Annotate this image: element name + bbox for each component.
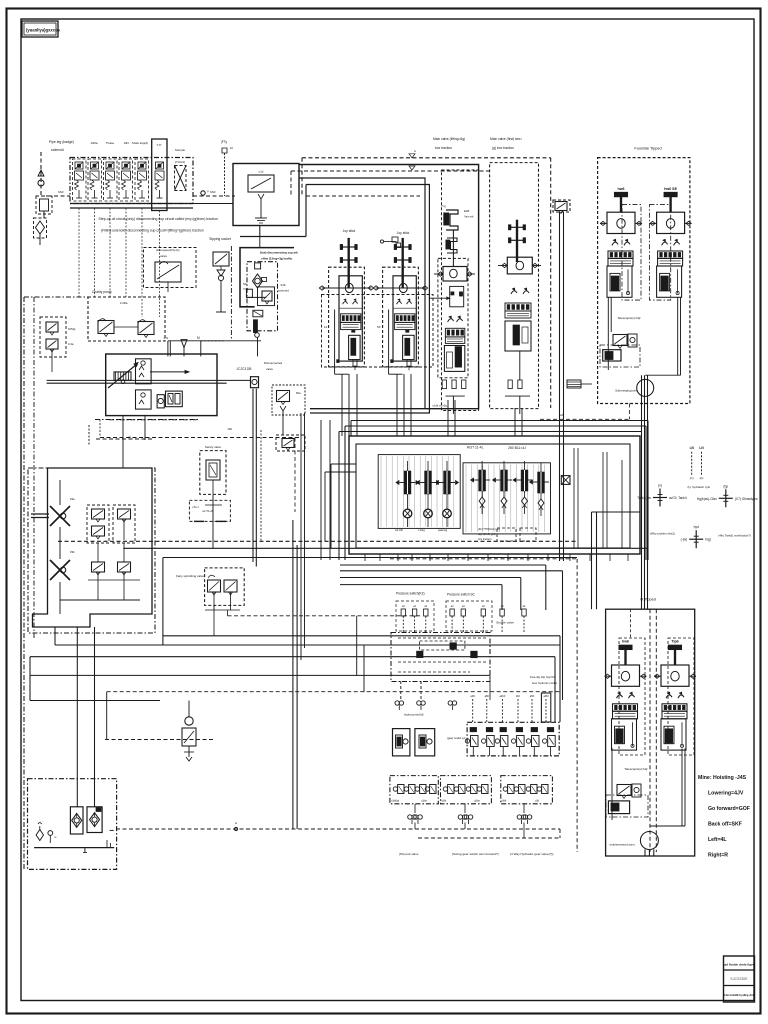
svg-text:2.0Ra: 2.0Ra	[120, 301, 128, 305]
svg-text:dgb (kbvfl) g(d): dgb (kbvfl) g(d)	[478, 532, 496, 536]
bus turn-downs mid	[554, 657, 556, 722]
svg-text:60a: 60a	[296, 391, 301, 395]
6t inner dashed a	[619, 638, 645, 755]
svg-text:Shde ksp(d): Shde ksp(d)	[132, 141, 148, 145]
svg-text:NG: NG	[243, 282, 247, 286]
svg-text:(yuanliya)gxxcos: (yuanliya)gxxcos	[26, 28, 61, 33]
comb risers assembly 4	[514, 408, 516, 436]
lifting valve pilot sub-box	[450, 286, 464, 306]
svg-text:5X: 5X	[377, 325, 381, 329]
svg-text:Charity pump: Charity pump	[92, 290, 112, 294]
manifold right group frame	[463, 463, 551, 534]
svg-text:Tank(J)av: Tank(J)av	[637, 496, 651, 500]
top dashed bus to tipped box	[302, 157, 551, 159]
svg-text:Pdb: Pdb	[70, 550, 75, 554]
pto shaft stub	[31, 513, 49, 515]
svg-text:Main valve (first) two=: Main valve (first) two=	[490, 137, 522, 141]
sprinkler valve b	[224, 580, 237, 592]
overflow port bottom	[689, 538, 703, 540]
solenoid valve V3	[106, 162, 114, 169]
manifold right group unit 1	[481, 461, 483, 470]
svg-text:(Filling solenoid) disconnecti: (Filling solenoid) disconnecting sup cir…	[101, 229, 204, 233]
svg-text:Submerging joint: Submerging joint	[615, 389, 637, 393]
manifold outer rect	[349, 436, 640, 554]
svg-text:Step-up oil circuit (only) dis: Step-up oil circuit (only) disconnecting…	[99, 217, 218, 221]
svg-text:(4th) Tank(l) overflow(w(?): (4th) Tank(l) overflow(w(?)	[718, 534, 750, 538]
drive shaft line	[47, 379, 251, 381]
svg-text:patensg: patensg	[438, 528, 448, 532]
lone valve feed	[188, 701, 190, 717]
left dashed bus below block	[96, 438, 154, 440]
small solid box pair a	[393, 729, 410, 756]
svg-text:E06: E06	[464, 209, 470, 213]
6t dark filter box	[608, 801, 629, 814]
regulator box top	[136, 359, 152, 384]
pilot valve block 2	[383, 267, 419, 367]
svg-text:Pipe leg (badge): Pipe leg (badge)	[49, 140, 74, 144]
bottom second dashed bus	[418, 837, 560, 839]
svg-text:SJCSJ30E: SJCSJ30E	[730, 977, 748, 981]
svg-text:Sample: Sample	[175, 148, 186, 152]
svg-text:Pressure switch(K3): Pressure switch(K3)	[396, 592, 425, 596]
manifold left group unit 2	[427, 461, 429, 471]
crossing marks on bus	[409, 154, 415, 158]
shuttle dark element 2	[450, 643, 456, 649]
left supply column	[40, 152, 42, 196]
svg-text:6t Tipped: 6t Tipped	[640, 598, 656, 602]
joystick 4	[516, 220, 518, 262]
svg-text:Hxcrrddfk hydlrg dvl: Hxcrrddfk hydlrg dvl	[724, 993, 754, 997]
internal feedback arrow	[150, 371, 188, 373]
left feeder verticals to manifold band	[300, 413, 302, 660]
second valve band2	[505, 311, 531, 318]
svg-text:A: A	[414, 149, 416, 153]
long dashed bus y541	[58, 540, 577, 542]
svg-text:JCJC3 DB: JCJC3 DB	[237, 367, 252, 371]
solenoid valve V5	[138, 162, 146, 169]
fourside drain lines right	[677, 297, 679, 375]
6t tipped solid box	[606, 609, 695, 856]
lone pressure valve lower-left	[185, 717, 193, 725]
svg-text:u 5u 1: u 5u 1	[192, 506, 199, 509]
svg-text:160: 160	[227, 427, 232, 431]
svg-text:Disconnected: Disconnected	[264, 361, 283, 365]
bottom long dashed bus	[116, 828, 560, 830]
manifold right section verticals	[573, 448, 575, 548]
svg-text:hw6: hw6	[622, 640, 629, 644]
svg-text:Telescopic(s) hdjr: Telescopic(s) hdjr	[617, 316, 640, 320]
lifting valve main block	[443, 267, 467, 282]
fairy sprinkling valve box	[205, 568, 245, 606]
block lower boundary dash-dot	[109, 419, 196, 421]
svg-text:offne (12mg=3g) traffic: offne (12mg=3g) traffic	[261, 257, 293, 261]
second valve arrows	[511, 291, 517, 294]
pilot supply manifold box	[240, 248, 294, 307]
solenoid valve V1	[75, 162, 83, 169]
svg-text:RGT 11-4L: RGT 11-4L	[467, 446, 484, 450]
svg-text:J-Hkg: J-Hkg	[418, 528, 425, 532]
E06 pilot clamp upper	[446, 210, 458, 230]
tandem pump valves column a	[87, 505, 109, 543]
svg-text:box traction: box traction	[435, 146, 452, 150]
svg-text:p1: p1	[128, 435, 132, 439]
check valve box double wall	[305, 185, 307, 237]
svg-text:u2dm: u2dm	[474, 800, 480, 803]
svg-text:Joy stick: Joy stick	[397, 231, 410, 235]
solenoid valve V6 in solid box	[152, 139, 167, 211]
svg-text:Joy stick: Joy stick	[343, 229, 356, 233]
manifold bottom stubs	[364, 554, 366, 561]
svg-text:Left=4L: Left=4L	[708, 837, 727, 843]
left boundary dash-dot lines	[23, 297, 25, 870]
svg-text:(Swing gear switch cam forward: (Swing gear switch cam forward?)	[452, 852, 499, 856]
tank joint port left	[653, 497, 667, 499]
manifold inner rect	[356, 444, 630, 548]
svg-text:u N: u N	[164, 336, 169, 340]
svg-text:250 B11=4J: 250 B11=4J	[508, 446, 526, 450]
manifold left corner feeders	[325, 471, 356, 473]
check valve symbol	[248, 175, 274, 192]
svg-text:hw6 SE: hw6 SE	[664, 187, 677, 191]
drawing number label box top-left	[22, 21, 58, 37]
charity pump dashed box	[88, 297, 165, 341]
lifting valve band2	[445, 337, 464, 344]
stub below	[257, 337, 259, 356]
lifting valve lower spool	[444, 346, 464, 372]
sprinkler valve a	[208, 580, 221, 592]
svg-text:LN: LN	[699, 446, 704, 450]
main pump control block	[106, 354, 217, 416]
svg-text:Lowering=4JV: Lowering=4JV	[708, 791, 744, 797]
svg-text:wb HD: wb HD	[395, 528, 403, 532]
zigzag bottom detail	[59, 582, 61, 614]
lifting valve striped band	[445, 328, 464, 337]
lifting valve bottom stubs	[442, 380, 446, 389]
manifold left group comb lines	[380, 456, 382, 527]
sprinkler upper dashed enclosure	[189, 500, 230, 521]
svg-text:hyd: hyd	[694, 525, 699, 529]
sanity valve dashed box	[200, 451, 226, 495]
pump X upper	[50, 506, 70, 526]
pilot 2 side stub	[384, 241, 396, 243]
tank unit dash-dot box	[28, 779, 117, 870]
strainer stub	[181, 340, 187, 348]
bottom dash-dot box 1	[390, 776, 438, 804]
lifting valve inner dashed box	[438, 258, 468, 377]
mid-page bus group a	[340, 564, 546, 566]
drain risers to tank boxes	[76, 627, 78, 807]
svg-text:Hg(b)av(-Cfav: Hg(b)av(-Cfav	[697, 497, 717, 501]
fourside inner dash-dot a	[622, 205, 641, 301]
svg-text:valve: valve	[160, 254, 167, 258]
left filter diamond	[34, 218, 47, 238]
sprinkler drain dash	[228, 615, 421, 617]
svg-text:avC9, Tank4: avC9, Tank4	[669, 496, 687, 500]
box1 valves	[393, 787, 397, 791]
svg-text:valve: valve	[266, 367, 273, 371]
top-right small pilot check assembly	[553, 200, 570, 212]
aux small valve right of node	[272, 385, 305, 415]
svg-text:(gas) model cyl: (gas) model cyl	[447, 736, 466, 740]
tandem pump outer dash-dot box	[28, 468, 155, 633]
svg-text:Tip6: Tip6	[671, 640, 678, 644]
svg-text:u3dk: u3dk	[501, 800, 507, 803]
verticals manifold right to 6t box	[591, 512, 593, 609]
svg-text:a4bF: a4bF	[499, 694, 505, 698]
supply bus to station	[41, 195, 70, 197]
svg-text:u1 /7A u5: u1 /7A u5	[202, 509, 214, 513]
svg-text:Back off=SKF: Back off=SKF	[708, 822, 742, 828]
box3 valves	[503, 787, 507, 791]
svg-text:a5K: a5K	[530, 694, 535, 698]
svg-text:Five-dig shp hop=b/f: Five-dig shp hop=b/f	[530, 675, 556, 679]
sprinkler turn-down verticals	[356, 616, 358, 676]
svg-text:(6h) tool valve: (6h) tool valve	[399, 852, 419, 856]
svg-text:11K: 11K	[516, 694, 521, 698]
second valve lower dash detail	[567, 380, 581, 388]
svg-text:14: 14	[324, 325, 328, 329]
tandem pump solid box	[33, 468, 153, 627]
mid-page bus group right half	[123, 547, 648, 549]
svg-text:Sanity valve: Sanity valve	[205, 445, 222, 449]
svg-text:JdN: JdN	[123, 141, 128, 145]
manifold left group unit 1	[407, 461, 409, 471]
svg-text:hydrocontrol(d): hydrocontrol(d)	[404, 713, 423, 717]
svg-text:a3K: a3K	[470, 694, 475, 698]
sample filter symbol	[175, 166, 187, 191]
comb risers assembly 3	[447, 400, 449, 436]
riser M	[200, 341, 202, 357]
solenoid valve V2	[91, 162, 99, 169]
sanity valve bottom bits	[205, 504, 222, 506]
bottom gauge pairs	[408, 815, 412, 819]
svg-text:u1dk u1 b5g: u1dk u1 b5g	[433, 404, 448, 408]
svg-text:(n): (n)	[658, 484, 662, 488]
manifold bottom dashed boxes	[497, 528, 516, 541]
joystick 2	[402, 238, 404, 288]
breather diamond	[36, 830, 43, 841]
comb risers assembly 2	[396, 374, 398, 436]
bottom dash-dot box 3	[501, 776, 553, 804]
svg-text:|FTy: |FTy	[221, 140, 228, 144]
right corner turns down	[647, 421, 649, 561]
svg-text:Mine: Hoisting -J4S: Mine: Hoisting -J4S	[698, 775, 747, 781]
charity pump valve a	[98, 321, 114, 334]
svg-text:0.4a: 0.4a	[68, 342, 74, 346]
pilot supply sub valve box	[258, 287, 275, 306]
manifold left extra verticals	[338, 432, 340, 561]
feed through vertical	[259, 226, 261, 237]
shuttle cluster dash-dot box	[391, 633, 490, 682]
box2 valves	[443, 787, 447, 791]
shuttle wiring	[398, 637, 488, 639]
left block lower dash-dot tail	[95, 419, 200, 421]
fourside lower-left valve set	[607, 297, 609, 370]
svg-text:Main valve (lifting=6g): Main valve (lifting=6g)	[433, 137, 465, 141]
svg-text:Sipping socket: Sipping socket	[209, 237, 231, 241]
svg-text:solenoid: solenoid	[51, 148, 64, 152]
feed pair down to manifold right group	[559, 212, 561, 561]
pilot valve block 1	[329, 267, 365, 367]
svg-text:Go forward=GOF: Go forward=GOF	[708, 806, 750, 812]
tall narrow box	[541, 693, 550, 722]
svg-text:gyd Hydde drrde llgvts: gyd Hydde drrde llgvts	[723, 963, 756, 967]
svg-text:1PMg: 1PMg	[68, 327, 76, 331]
sanity valve symbol	[206, 460, 220, 480]
servo piston	[157, 395, 164, 408]
manifold right group comb lines	[465, 465, 467, 533]
6t joint circle	[640, 832, 658, 850]
second main valve dashed box	[490, 163, 539, 409]
svg-text:7JY: 7JY	[156, 143, 161, 147]
svg-text:Telescopic(s) hdjr: Telescopic(s) hdjr	[624, 767, 647, 771]
tank outlet dashed	[110, 829, 116, 831]
shuttle dark element 3	[471, 651, 477, 657]
pilot bus right segment	[306, 195, 420, 197]
svg-text:(4 Way Hydraulic gear valve(?): (4 Way Hydraulic gear valve(?))	[510, 852, 553, 856]
shuttle dark element 1	[417, 651, 423, 657]
fourside bottom stub dashed	[540, 418, 630, 420]
pressure switch group dashed boxes	[396, 601, 434, 631]
lifting main valve solid box	[299, 165, 479, 409]
bottom dash-dot box 2	[441, 776, 492, 804]
lifting valve arrows row	[448, 319, 454, 322]
aux dashed box lower	[276, 435, 305, 451]
manifold right group unit 2	[503, 461, 505, 470]
sipping socket components	[213, 252, 229, 266]
svg-text:u1d: u1d	[259, 170, 264, 174]
manifold left group frame	[378, 455, 460, 529]
upper horizontal tie lines	[351, 420, 648, 422]
svg-text:JdNa: JdNa	[90, 141, 97, 145]
pilot supply solenoid dark parts	[253, 310, 263, 317]
pilot supply inner dash-dot box	[247, 262, 278, 331]
fourside joint circle	[637, 379, 654, 396]
svg-text:Pressure switch SC: Pressure switch SC	[447, 593, 476, 597]
comb risers assembly 1	[341, 374, 343, 436]
svg-text:bow hydronic model: bow hydronic model	[532, 681, 557, 685]
gearbox node	[251, 377, 259, 388]
6t inner dashed b	[668, 638, 694, 755]
svg-text:u3d: u3d	[535, 800, 540, 803]
6t inner feed dashes	[649, 609, 651, 852]
svg-text:LN: LN	[690, 446, 695, 450]
right solenoid cluster box	[467, 722, 559, 756]
6t lower-left valve set	[611, 748, 613, 820]
left upper pressure valves	[40, 317, 66, 357]
second valve striped band	[505, 303, 531, 311]
level gauge	[48, 831, 53, 836]
svg-text:a5K: a5K	[484, 694, 489, 698]
svg-text:(L) hydraulic cyls: (L) hydraulic cyls	[688, 485, 711, 489]
station bottom rail	[70, 203, 193, 205]
left small accumulator box	[36, 196, 52, 214]
tank joint port right	[719, 497, 733, 499]
pump X lower	[50, 560, 70, 580]
solenoid station enclosure	[70, 158, 193, 204]
lifting valve dashed inner box	[442, 170, 479, 411]
node pp	[201, 191, 205, 195]
return filter 1	[70, 807, 83, 834]
svg-text:u1dm: u1dm	[421, 800, 427, 803]
manifold right group unit 4	[540, 463, 542, 472]
mid bus y178	[299, 178, 425, 408]
shuttle internals dashed sub-box	[420, 641, 465, 650]
E-box drain dashed vertical	[260, 430, 262, 541]
long verticals center page	[292, 545, 294, 829]
svg-text:Pda: Pda	[70, 497, 75, 501]
svg-text:(-(w): (-(w)	[681, 538, 688, 542]
svg-text:Yair-mk: Yair-mk	[464, 215, 474, 219]
fourside feed bundle down	[641, 375, 643, 609]
joystick 1	[348, 238, 350, 288]
left dashed tie y437	[100, 437, 300, 439]
tank bottom rail	[34, 847, 114, 849]
svg-text:u1dk(g): u1dk(g)	[391, 800, 399, 803]
fourside inner dash-dot b	[649, 205, 670, 301]
mid-page bus left half	[163, 635, 560, 637]
svg-text:(but) disconnecting sup ark: (but) disconnecting sup ark	[260, 251, 298, 255]
svg-text:M: M	[197, 336, 200, 340]
main pilot dashed bus	[193, 195, 235, 197]
dashed bus y171	[291, 170, 490, 172]
svg-text:box traction: box traction	[478, 537, 492, 541]
regulator box bottom	[136, 390, 152, 409]
svg-text:hw6: hw6	[618, 187, 625, 191]
dashed tie y739	[105, 739, 213, 741]
svg-text:Right=R: Right=R	[708, 853, 728, 859]
check valve box	[233, 164, 299, 226]
svg-text:[7x0x4]: [7x0x4]	[175, 160, 185, 164]
manifold small square right	[561, 476, 570, 485]
svg-text:solenoid: solenoid	[278, 289, 289, 293]
fourside tipped dashed box	[598, 158, 690, 404]
lower left stubs of block	[122, 416, 124, 468]
solenoid valve V4	[122, 162, 130, 169]
stub below check box	[259, 237, 261, 248]
pilot supply internals	[255, 263, 261, 269]
dash-dot boundary left of box	[230, 246, 232, 340]
small solid box pair b	[415, 729, 435, 756]
return filter 2	[87, 807, 102, 833]
svg-text:a3M: a3M	[543, 694, 548, 698]
svg-text:(m): (m)	[690, 476, 694, 480]
manifold left group unit 3	[446, 461, 448, 471]
tank corner marks	[106, 840, 108, 848]
svg-text:SN3: SN3	[210, 190, 216, 194]
tandem pump lower valve row	[92, 562, 105, 572]
svg-text:(subterranean) joint: (subterranean) joint	[609, 843, 634, 847]
svg-text:Fairy sprinkling valve: Fairy sprinkling valve	[176, 574, 204, 578]
6t right drain	[681, 749, 683, 827]
second valve main block	[507, 257, 532, 274]
svg-text:(Why problem list(1): (Why problem list(1)	[650, 532, 675, 536]
svg-text:Thase: Thase	[106, 141, 115, 145]
svg-text:u2dk: u2dk	[441, 800, 447, 803]
svg-text:Shuttle valve: Shuttle valve	[496, 621, 514, 625]
svg-text:w6: w6	[560, 413, 564, 417]
charity pump valve b	[138, 322, 154, 335]
svg-text:(low-speed) fly-by: (low-speed) fly-by	[156, 248, 180, 252]
riser N1 to check box	[167, 341, 169, 357]
svg-text:(4b) TTPDAvb (vb): (4b) TTPDAvb (vb)	[478, 527, 500, 531]
second valve lower spool	[505, 321, 531, 351]
svg-text:(C7) Glhawly(rw: (C7) Glhawly(rw	[735, 497, 759, 501]
title block bottom-right	[724, 956, 755, 1002]
second valve bottom stubs	[508, 380, 512, 389]
fourside dark filter box	[603, 350, 621, 361]
E06 pilot clamp lower	[447, 238, 457, 253]
